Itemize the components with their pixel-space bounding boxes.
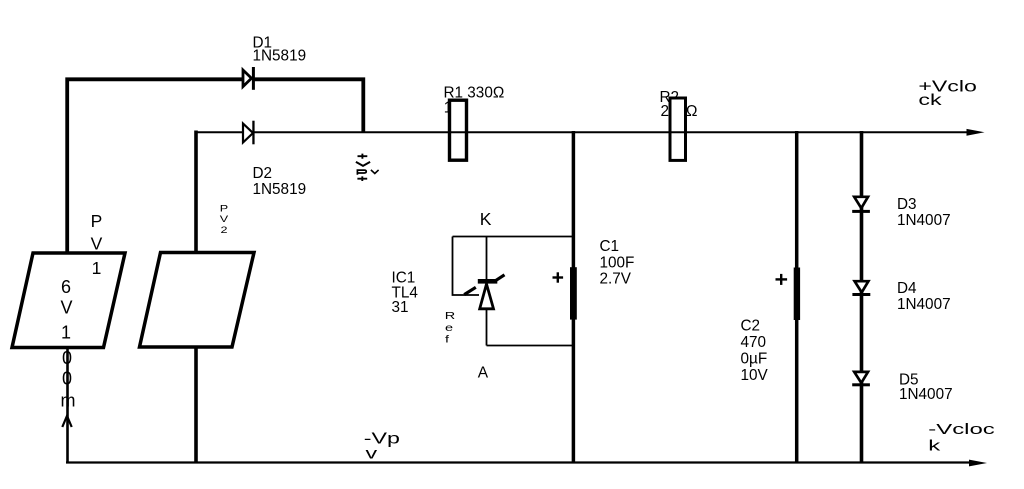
- label D2 1N5819: [253, 165, 307, 198]
- arrow -Vclock: [969, 460, 987, 467]
- svg-text:100F: 100F: [600, 254, 635, 271]
- svg-text:0: 0: [62, 369, 72, 389]
- label -Vpv: [364, 430, 400, 462]
- svg-text:C2: C2: [741, 318, 761, 335]
- svg-text:V: V: [91, 234, 103, 254]
- svg-text:f: f: [445, 333, 450, 344]
- wire main horizontal +V rail: [254, 131, 969, 133]
- svg-text:V: V: [220, 215, 229, 225]
- label IC1 TL431: [392, 270, 419, 317]
- label C2 4700uF 10V: [741, 318, 769, 384]
- svg-text:6: 6: [61, 277, 71, 297]
- svg-text:31: 31: [392, 299, 409, 316]
- resistor R1: [450, 100, 467, 160]
- svg-text:1N4007: 1N4007: [897, 212, 951, 229]
- wire PV1 top loop: [67, 79, 242, 252]
- wire diode chain vertical rail: [860, 131, 864, 464]
- TL431 U1 cathode bar: [478, 279, 498, 284]
- C1 polarity plus: [553, 272, 564, 282]
- label PV1 rating 6V 100mA: [60, 277, 75, 411]
- wire TL431 cathode lead: [486, 237, 488, 281]
- capacitor C2 body: [794, 268, 800, 321]
- label D3 1N4007: [897, 196, 951, 229]
- wire PV2 to D2 anode: [196, 131, 243, 133]
- label C1 100F 2.7V: [600, 238, 635, 288]
- svg-text:0µF: 0µF: [741, 351, 768, 368]
- wire C2 vertical rail: [795, 131, 799, 464]
- C2 polarity plus: [776, 274, 788, 285]
- svg-text:K: K: [480, 209, 492, 229]
- svg-text:470: 470: [741, 334, 767, 351]
- TL431 U1 reference dashed arrow: [464, 275, 504, 295]
- svg-text:C1: C1: [600, 238, 620, 255]
- svg-text:1: 1: [92, 258, 102, 278]
- wire PV2 top lead: [194, 131, 198, 252]
- label PV1: [91, 211, 103, 278]
- TL431 U1 triangle: [480, 284, 494, 309]
- svg-text:v: v: [366, 445, 378, 462]
- wire TL431 cathode top: [453, 236, 574, 238]
- wire TL431 anode lead: [486, 309, 488, 346]
- svg-text:k: k: [928, 438, 940, 454]
- svg-text:1N5819: 1N5819: [253, 181, 307, 198]
- svg-text:1N4007: 1N4007: [897, 296, 951, 313]
- svg-text:e: e: [445, 322, 453, 333]
- svg-text:P: P: [220, 204, 228, 214]
- wire TL431 anode to C1 rail: [487, 345, 574, 347]
- label Ref: [445, 310, 455, 345]
- svg-text:P: P: [91, 211, 103, 231]
- arrow current direction on PV1 lead: [62, 416, 71, 427]
- label +Vclock: [918, 78, 976, 109]
- solar panel PV1: [12, 253, 125, 348]
- label D1 1N5819: [253, 35, 307, 65]
- capacitor C1 body: [570, 267, 577, 319]
- wire D1 cathode to corner down to main rail: [254, 79, 363, 132]
- label +Vpv (rotated net label): [356, 154, 379, 181]
- svg-text:D3: D3: [897, 196, 917, 213]
- svg-text:1: 1: [61, 322, 71, 342]
- label D4 1N4007: [897, 280, 951, 313]
- wire bottom -V rail: [66, 461, 970, 463]
- svg-text:10V: 10V: [741, 367, 769, 384]
- svg-text:0: 0: [62, 348, 72, 368]
- wire PV1 bottom lead: [66, 348, 69, 462]
- diode D3: [852, 197, 870, 213]
- diode D1: [243, 67, 255, 90]
- svg-text:D2: D2: [253, 165, 273, 182]
- label R1 330ohm 1W: [444, 85, 505, 117]
- label D5 1N4007: [899, 372, 953, 404]
- resistor R2: [670, 98, 686, 160]
- label PV2: [220, 204, 229, 235]
- svg-text:ck: ck: [918, 92, 941, 109]
- svg-text:m: m: [61, 391, 76, 411]
- svg-text:-Vcloc: -Vcloc: [928, 422, 995, 438]
- arrow +Vclock: [967, 129, 985, 136]
- svg-text:A: A: [478, 365, 489, 382]
- svg-text:1N4007: 1N4007: [899, 386, 953, 403]
- svg-text:2: 2: [220, 225, 227, 235]
- wire TL431 ref feedback left: [453, 237, 480, 296]
- svg-text:R: R: [445, 310, 455, 321]
- svg-text:V: V: [60, 298, 72, 318]
- wire C1 vertical rail: [572, 131, 576, 464]
- svg-text:D4: D4: [897, 280, 917, 297]
- solar panel PV2: [140, 253, 255, 348]
- label -Vclock: [928, 422, 995, 455]
- diode D2: [243, 121, 255, 145]
- diode D5: [852, 372, 870, 386]
- wire PV2 bottom lead: [194, 347, 198, 463]
- svg-text:1N5819: 1N5819: [253, 47, 307, 64]
- svg-text:2.7V: 2.7V: [600, 271, 632, 288]
- label R2 220ohm: [660, 89, 698, 120]
- diode D4: [852, 281, 870, 296]
